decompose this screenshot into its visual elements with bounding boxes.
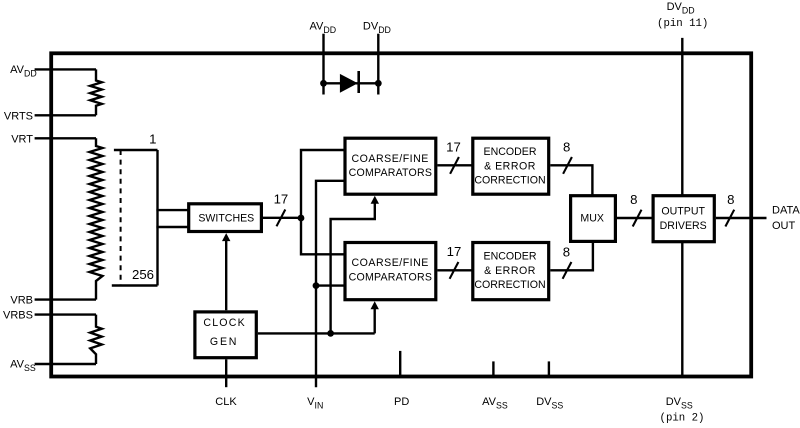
svg-text:COARSE/FINE: COARSE/FINE <box>352 257 429 269</box>
wire ladder top tap <box>114 149 158 151</box>
block COARSE/FINE COMPARATORS lower U2 <box>345 243 436 300</box>
wire CLK pin <box>225 359 227 387</box>
wire clock to upper comparator <box>331 202 375 333</box>
block ENCODER & ERROR CORRECTION lower U4 <box>473 243 549 300</box>
pin label DVSS (bottom) <box>536 396 563 411</box>
block COARSE/FINE COMPARATORS upper U1 <box>345 138 436 194</box>
svg-text:DATA: DATA <box>772 205 800 217</box>
block SWITCHES <box>189 204 262 232</box>
wire DVSS vertical <box>681 242 683 377</box>
wire clock to lower comparator <box>374 308 376 334</box>
wire VRTS pin <box>35 114 96 116</box>
power label DVDD (top) <box>363 21 391 36</box>
svg-text:CLK: CLK <box>215 396 237 408</box>
svg-text:256: 256 <box>132 267 154 282</box>
diode D1 <box>340 71 359 93</box>
svg-text:(pin 11): (pin 11) <box>657 18 708 30</box>
wire VIN to comparator 2 input B <box>316 284 345 286</box>
svg-text:SS: SS <box>552 401 564 411</box>
wire VIN <box>316 181 345 387</box>
wire VRT pin <box>35 137 96 139</box>
junction diode cathode <box>375 80 382 87</box>
pin label AVDD (left) <box>10 64 37 79</box>
svg-text:DD: DD <box>323 25 336 35</box>
junction switches output <box>298 215 305 222</box>
wire DVDD supply vertical <box>681 38 683 196</box>
power label AVDD (top) <box>310 21 337 36</box>
svg-text:DD: DD <box>682 6 695 16</box>
svg-text:SS: SS <box>681 401 693 411</box>
svg-text:AV: AV <box>310 21 325 33</box>
svg-text:CORRECTION: CORRECTION <box>474 279 545 291</box>
pin label VIN <box>307 396 323 411</box>
svg-text:8: 8 <box>630 192 637 207</box>
svg-text:VRB: VRB <box>10 295 33 307</box>
svg-text:SS: SS <box>24 363 36 373</box>
svg-text:COARSE/FINE: COARSE/FINE <box>352 153 429 165</box>
svg-text:COMPARATORS: COMPARATORS <box>349 167 432 179</box>
wire comparator 2 output <box>437 269 472 271</box>
wire AVSS pin <box>35 363 96 365</box>
bus slash encoder 2 output <box>563 262 572 279</box>
bus slash comparator 2 output <box>450 262 459 279</box>
svg-text:OUT: OUT <box>772 220 796 232</box>
wire comparator 1 output <box>437 164 472 166</box>
svg-text:AV: AV <box>482 396 497 408</box>
wire encoder 2 output to MUX <box>550 241 593 270</box>
arrowhead into SWITCHES <box>222 233 230 241</box>
svg-text:GEN: GEN <box>210 336 238 348</box>
power label DVDD (pin 11) <box>657 1 708 30</box>
arrowhead into upper comparator <box>371 196 379 204</box>
wire output drivers to DATA OUT <box>716 217 767 219</box>
wire to comparator 1 input A <box>301 150 345 218</box>
wire VRBS pin <box>35 313 96 315</box>
svg-text:(pin 2): (pin 2) <box>660 413 705 425</box>
block ENCODER & ERROR CORRECTION upper U3 <box>473 138 549 194</box>
bus slash comparator 1 output <box>450 157 459 174</box>
svg-text:DRIVERS: DRIVERS <box>660 220 707 232</box>
resistor R3 (VRBS-AVSS) <box>90 315 102 364</box>
svg-text:17: 17 <box>274 192 289 207</box>
wire DVDD top <box>377 34 379 95</box>
svg-text:1: 1 <box>149 132 156 147</box>
resistor R2 reference ladder (VRT-VRB) <box>90 138 103 299</box>
svg-text:DV: DV <box>667 1 683 13</box>
svg-text:DV: DV <box>666 396 682 408</box>
wire encoder 1 output to MUX <box>550 165 592 196</box>
svg-text:8: 8 <box>563 244 570 259</box>
chip outline <box>51 53 751 376</box>
bus slash switches output <box>277 210 286 227</box>
svg-text:17: 17 <box>447 244 462 259</box>
wire switches input 1 <box>156 209 188 211</box>
svg-text:AV: AV <box>10 359 25 371</box>
bus slash data out <box>725 210 734 227</box>
junction VIN <box>313 282 320 289</box>
wire clock gen output <box>258 332 375 334</box>
svg-text:SS: SS <box>496 401 508 411</box>
svg-text:DD: DD <box>378 25 391 35</box>
svg-text:OUTPUT: OUTPUT <box>661 205 705 217</box>
svg-text:IN: IN <box>315 401 324 411</box>
svg-text:CORRECTION: CORRECTION <box>474 175 545 187</box>
wire AVSS pin stub <box>492 361 494 376</box>
svg-text:SWITCHES: SWITCHES <box>198 213 254 225</box>
ladder dashed line <box>120 150 122 286</box>
svg-text:MUX: MUX <box>580 213 604 225</box>
wire ladder bottom tap <box>112 284 158 286</box>
junction diode anode <box>320 80 327 87</box>
svg-text:VRTS: VRTS <box>4 110 33 122</box>
block CLOCK GEN <box>195 312 256 358</box>
wire clock to switches <box>225 240 227 311</box>
svg-text:17: 17 <box>446 139 461 154</box>
svg-text:& ERROR: & ERROR <box>484 160 536 172</box>
svg-text:PD: PD <box>394 396 409 408</box>
wire DVSS pin stub <box>548 361 550 376</box>
svg-text:COMPARATORS: COMPARATORS <box>349 272 432 284</box>
wire AVDD top <box>322 34 324 95</box>
block OUTPUT DRIVERS U6 <box>653 196 714 242</box>
svg-text:ENCODER: ENCODER <box>484 146 537 158</box>
wire PD pin stub <box>399 351 401 377</box>
junction clock branch <box>327 330 334 337</box>
pin label DATA OUT <box>772 205 800 233</box>
svg-text:DV: DV <box>363 21 379 33</box>
svg-text:ENCODER: ENCODER <box>484 251 537 263</box>
wire MUX output <box>617 217 653 219</box>
wire to comparator 2 input A <box>301 218 345 254</box>
wire VRB pin <box>35 298 96 300</box>
svg-text:8: 8 <box>563 140 570 155</box>
pin label AVSS (bottom) <box>482 396 508 411</box>
wire diode link <box>324 82 379 84</box>
svg-text:VRT: VRT <box>11 133 33 145</box>
svg-text:& ERROR: & ERROR <box>484 265 536 277</box>
power label DVSS (pin 2) <box>660 396 705 425</box>
bus slash encoder 1 output <box>563 157 572 174</box>
svg-text:AV: AV <box>10 64 25 76</box>
resistor R1 (AVDD-VRTS) <box>90 69 102 115</box>
svg-text:8: 8 <box>727 192 734 207</box>
arrowhead into lower comparator <box>371 301 379 309</box>
wire switches input 2 <box>156 226 188 228</box>
block MUX U5 <box>571 196 616 242</box>
svg-text:VRBS: VRBS <box>3 310 33 322</box>
svg-text:CLOCK: CLOCK <box>203 317 246 329</box>
wire ladder bus vertical <box>156 150 158 286</box>
pin label AVSS (left) <box>10 359 36 374</box>
bus slash MUX output <box>633 210 642 227</box>
wire AVDD pin <box>35 68 96 70</box>
wire switches output <box>263 217 301 219</box>
svg-text:DV: DV <box>536 396 552 408</box>
